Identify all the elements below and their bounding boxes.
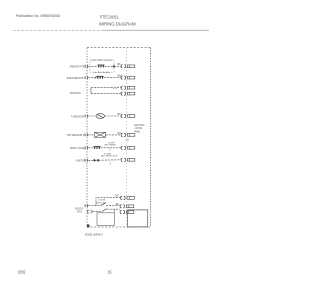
svg-text:SWITCH: SWITCH xyxy=(96,203,105,205)
svg-text:DOOR: DOOR xyxy=(98,199,105,201)
svg-text:LIMIT THERM: LIMIT THERM xyxy=(104,145,116,147)
svg-text:PTEC240SL: PTEC240SL xyxy=(100,15,119,20)
svg-text:AND SERVICE BK: AND SERVICE BK xyxy=(101,155,117,158)
svg-text:BK: BK xyxy=(116,194,120,197)
svg-text:RADIANT/A: RADIANT/A xyxy=(70,92,81,95)
svg-text:SPEAKER/TOP: SPEAKER/TOP xyxy=(67,76,85,80)
svg-text:15: 15 xyxy=(108,269,112,274)
svg-text:2: 2 xyxy=(109,150,111,152)
svg-text:10/02: 10/02 xyxy=(18,269,26,274)
svg-text:PREHEAT/TOP: PREHEAT/TOP xyxy=(70,65,85,69)
svg-text:5B: 5B xyxy=(126,139,129,141)
svg-text:BK: BK xyxy=(117,63,121,66)
svg-text:MODEL WIRING A: MODEL WIRING A xyxy=(85,233,103,237)
svg-text:BK: BK xyxy=(117,113,121,116)
svg-text:BK: BK xyxy=(116,203,120,206)
svg-text:SWITCH: SWITCH xyxy=(77,210,82,213)
svg-text:SAFETY VALVE: SAFETY VALVE xyxy=(70,146,85,150)
svg-text:1450 1800 1200 W: 1450 1800 1200 W xyxy=(91,60,113,62)
svg-text:T-SENSOR: T-SENSOR xyxy=(71,114,85,118)
svg-text:1a 2a 3a 4a: 1a 2a 3a 4a xyxy=(93,72,111,74)
svg-text:PANEL: PANEL xyxy=(134,129,141,133)
svg-text:TOP SENSOR P: TOP SENSOR P xyxy=(67,133,85,137)
svg-text:Publication No. 5995576063: Publication No. 5995576063 xyxy=(16,13,60,18)
svg-text:BU: BU xyxy=(117,132,121,135)
svg-text:WIRING DIAGRAM: WIRING DIAGRAM xyxy=(99,21,136,26)
svg-text:2: 2 xyxy=(110,163,112,165)
svg-text:IGNITOR: IGNITOR xyxy=(76,159,85,163)
